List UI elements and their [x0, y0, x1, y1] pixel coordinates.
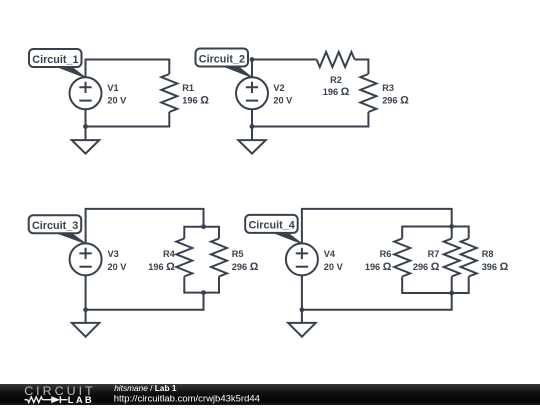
- svg-text:296 Ω: 296 Ω: [413, 261, 440, 273]
- svg-text:Circuit_4: Circuit_4: [249, 220, 295, 232]
- svg-text:Circuit_3: Circuit_3: [32, 220, 78, 232]
- svg-text:hitsmane / Lab 1: hitsmane / Lab 1: [114, 383, 177, 393]
- svg-text:R6: R6: [380, 249, 392, 259]
- svg-text:20 V: 20 V: [108, 262, 128, 272]
- svg-text:20 V: 20 V: [273, 96, 293, 106]
- svg-text:Circuit_1: Circuit_1: [32, 54, 78, 66]
- svg-text:R8: R8: [482, 249, 494, 259]
- svg-text:V1: V1: [107, 83, 118, 93]
- svg-text:R5: R5: [232, 249, 244, 259]
- svg-text:196 Ω: 196 Ω: [365, 261, 392, 273]
- svg-text:296 Ω: 296 Ω: [232, 261, 259, 273]
- svg-text:296 Ω: 296 Ω: [382, 95, 409, 107]
- svg-text:20 V: 20 V: [107, 96, 127, 106]
- svg-text:R7: R7: [428, 249, 440, 259]
- svg-text:196 Ω: 196 Ω: [182, 95, 209, 107]
- svg-text:LAB: LAB: [68, 394, 94, 405]
- svg-text:Circuit_2: Circuit_2: [199, 53, 245, 65]
- svg-text:R3: R3: [382, 83, 394, 93]
- svg-text:V3: V3: [108, 249, 119, 259]
- svg-text:R4: R4: [163, 249, 176, 259]
- svg-text:V4: V4: [324, 249, 336, 259]
- svg-text:R2: R2: [330, 75, 342, 85]
- svg-text:20 V: 20 V: [324, 262, 344, 272]
- svg-text:http://circuitlab.com/crwjb43k: http://circuitlab.com/crwjb43k5rd44: [114, 393, 260, 404]
- svg-text:396 Ω: 396 Ω: [482, 261, 509, 273]
- svg-text:196 Ω: 196 Ω: [148, 261, 175, 273]
- svg-text:R1: R1: [182, 83, 194, 93]
- svg-text:V2: V2: [273, 83, 284, 93]
- svg-text:196 Ω: 196 Ω: [323, 86, 350, 98]
